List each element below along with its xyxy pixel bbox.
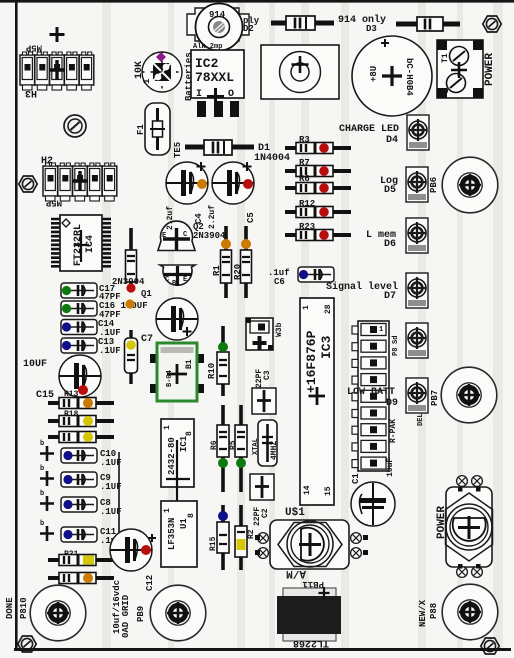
transistor Q1 bowl CBE (160, 265, 195, 288)
wire vertical right of caps (118, 452, 120, 532)
svg-text:PB7: PB7 (430, 390, 440, 406)
opamp U1 LF353N (161, 501, 197, 567)
capacitor C17 (61, 283, 97, 298)
battery B1 green module (150, 343, 204, 401)
cap square 1 (252, 388, 276, 414)
svg-text:+8U: +8U (369, 66, 379, 82)
IC3 16F876P (300, 298, 334, 505)
electrolytic C12 (110, 529, 152, 571)
IC4 FT232RL (51, 215, 111, 271)
yellow dot R18 (83, 416, 93, 426)
hex pad left (19, 176, 37, 192)
svg-text:D7: D7 (384, 291, 396, 302)
svg-text:E: E (162, 232, 166, 240)
svg-text:10UF: 10UF (23, 359, 47, 370)
svg-text:IC2: IC2 (195, 56, 219, 71)
purple dot of 10K pot (156, 52, 166, 62)
svg-text:R5: R5 (229, 440, 238, 450)
svg-text:B1: B1 (185, 359, 194, 369)
LED D7 (406, 273, 428, 308)
mounting hole screw top-left (64, 115, 86, 137)
svg-text:Alk.2mp: Alk.2mp (193, 43, 222, 51)
svg-text:1: 1 (163, 508, 172, 513)
svg-text:0AD GRID: 0AD GRID (121, 594, 131, 638)
board border: top line (0, 0, 514, 3)
svg-text:H2: H2 (41, 156, 53, 167)
resistor R10 vertical (217, 326, 229, 396)
capacitor C11 (61, 527, 97, 542)
IC TL2268 dark package (277, 587, 341, 641)
svg-text:14: 14 (303, 485, 312, 495)
IC2 78XXL regulator (191, 50, 244, 117)
svg-text:.1UF: .1UF (99, 346, 121, 356)
trimpot 10K (142, 52, 182, 92)
svg-text:2432-80: 2432-80 (167, 437, 177, 475)
capacitor C10 (61, 448, 97, 463)
rotary switch U$1 (270, 520, 349, 569)
orange dot R22 (83, 573, 93, 583)
svg-text:P88: P88 (429, 603, 439, 619)
svg-text:IC3: IC3 (319, 335, 334, 359)
orange dot R13 (83, 398, 93, 408)
svg-text:LF353N: LF353N (167, 518, 177, 550)
svg-text:10uF: 10uF (386, 458, 395, 477)
svg-text:XTAL: XTAL (252, 438, 260, 455)
resistor row3 (48, 432, 114, 443)
resistor R6b vertical (217, 405, 229, 492)
svg-text:4MHZ: 4MHZ (270, 441, 279, 460)
diode D2 (271, 16, 334, 30)
svg-text:NEW/X: NEW/X (418, 599, 428, 627)
svg-text:2.2uf: 2.2uf (166, 206, 175, 230)
svg-text:R-PAK: R-PAK (389, 419, 398, 443)
hex mount top-right (483, 16, 501, 32)
hex mount bottom-left (18, 636, 36, 652)
green dot C17 (62, 286, 71, 295)
yellow dot row3 (83, 432, 93, 442)
green dot C16 (62, 304, 71, 313)
svg-text:IC1: IC1 (179, 435, 189, 452)
svg-text:C3: C3 (263, 370, 272, 380)
svg-text:D5: D5 (384, 185, 396, 196)
svg-text:DONE: DONE (5, 597, 15, 619)
hex mount bottom-right (481, 638, 499, 654)
resistor R2 vertical (235, 505, 247, 570)
svg-text:O: O (228, 89, 234, 100)
resistor R13 row (48, 398, 114, 409)
big power capacitor (352, 36, 432, 116)
fiducial cross top-left (50, 27, 65, 42)
POWER pads bottom (457, 567, 468, 578)
svg-text:D6: D6 (384, 239, 396, 250)
resistor R20 vertical (241, 226, 252, 298)
svg-text:8: 8 (185, 431, 194, 436)
green dot R6b (218, 458, 228, 468)
crystal 4MHZ (258, 420, 277, 466)
svg-text:Sd: Sd (392, 336, 400, 344)
svg-text:Q1: Q1 (141, 289, 152, 299)
svg-text:914: 914 (209, 10, 226, 20)
svg-text:D9: D9 (386, 398, 398, 409)
svg-text:1: 1 (163, 425, 172, 430)
resistor R5 vertical (235, 405, 247, 492)
button P88 (442, 584, 498, 640)
orange dot R1 (221, 239, 231, 249)
buzzer box (261, 45, 339, 99)
svg-text:R6: R6 (210, 440, 219, 450)
svg-text:C4: C4 (194, 213, 204, 224)
plus C24 (183, 327, 192, 336)
svg-text:R10: R10 (207, 363, 217, 379)
red dot C12 (141, 545, 151, 555)
relay-like part mid (246, 318, 273, 350)
connector H2 (43, 163, 117, 201)
svg-text:A/M: A/M (286, 567, 306, 579)
electrolytic C15 (59, 355, 101, 397)
svg-text:8: 8 (187, 513, 196, 518)
board border: left line (15, 0, 18, 650)
svg-text:D2: D2 (243, 24, 254, 34)
connector H3 (20, 52, 94, 90)
svg-text:28: 28 (324, 304, 333, 314)
svg-text:M5P: M5P (25, 43, 42, 53)
svg-text:C15: C15 (36, 390, 54, 401)
resistor R9 vertical (126, 228, 137, 292)
diode D1 (185, 140, 254, 155)
capacitor C14 (61, 320, 97, 335)
svg-text:C5: C5 (246, 212, 256, 223)
svg-text:I: I (196, 89, 202, 100)
orange dot on label (125, 299, 134, 308)
svg-text:1: 1 (302, 305, 311, 310)
svg-text:C1: C1 (351, 473, 361, 484)
board border: bottom line (14, 648, 511, 651)
svg-text:Batteries: Batteries (184, 52, 194, 101)
svg-text:10K: 10K (134, 61, 145, 79)
svg-text:P8: P8 (392, 348, 400, 356)
green dot R5 (236, 458, 246, 468)
svg-text:R15: R15 (209, 536, 218, 551)
green dot R10 (218, 342, 228, 352)
svg-text:R2: R2 (247, 529, 256, 539)
power trimmer top right (437, 40, 483, 98)
fuse F1 (145, 103, 170, 155)
svg-text:C: C (165, 276, 169, 284)
electrolytic C5 (212, 162, 254, 204)
LED D5 (406, 167, 428, 202)
button PB9 (150, 585, 206, 641)
svg-text:PB9: PB9 (136, 606, 146, 622)
svg-text:78XXL: 78XXL (195, 70, 234, 85)
svg-text:B-04: B-04 (166, 370, 174, 387)
cap square 2 (250, 474, 274, 500)
capacitor C13 (61, 338, 97, 353)
plus C12 (148, 534, 156, 542)
blue dot C14 (62, 322, 71, 331)
svg-text:POWER: POWER (484, 53, 496, 86)
capacitor C9 (61, 472, 97, 487)
svg-text:bC-H0B4: bC-H0B4 (404, 58, 414, 96)
svg-text:U$1: U$1 (285, 507, 305, 519)
plus marker row4 (40, 526, 54, 541)
svg-text:C12: C12 (145, 575, 155, 591)
svg-text:W3b: W3b (275, 322, 284, 337)
electrolytic C24 mid (156, 298, 198, 340)
red dot Q1 (126, 283, 135, 292)
LED D6 (406, 218, 428, 253)
R-PAK socket strip (352, 321, 389, 471)
LED D8 (406, 323, 428, 358)
plus C5 (243, 162, 252, 171)
svg-text:C2: C2 (261, 508, 270, 518)
svg-text:U1: U1 (179, 518, 189, 529)
svg-text:C6: C6 (274, 277, 285, 287)
red dot C15 (78, 385, 88, 395)
resistor R21 row (48, 555, 114, 566)
svg-text:P810: P810 (19, 597, 29, 619)
svg-text:E: E (183, 276, 187, 284)
capacitor C16 (61, 301, 97, 316)
svg-text:+16F876P: +16F876P (304, 330, 319, 393)
svg-text:b: b (40, 490, 44, 498)
blue dot R15 (218, 511, 228, 521)
POWER pads top (457, 476, 468, 487)
orange dot R20 (241, 239, 251, 249)
transistor Q2 (158, 221, 195, 250)
resistor R15 vertical (217, 505, 229, 570)
svg-text:1: 1 (379, 326, 383, 334)
plus marker row1 (40, 446, 54, 461)
svg-text:D4: D4 (386, 135, 398, 146)
diode D3 (396, 17, 460, 31)
svg-text:M5P: M5P (45, 198, 62, 208)
blue dot C13 (62, 341, 71, 350)
plus marker row3 (40, 496, 54, 511)
blue dot C6 (299, 270, 308, 279)
svg-text:1N4004: 1N4004 (254, 153, 290, 164)
svg-text:15: 15 (324, 486, 333, 496)
svg-text:C: C (183, 231, 187, 239)
LED D4 (407, 115, 429, 150)
svg-text:DEL: DEL (417, 413, 425, 426)
rotary switch POWER (446, 487, 493, 567)
svg-text:b: b (40, 440, 44, 448)
svg-text:R20: R20 (233, 264, 243, 280)
electrolytic C1 (351, 482, 395, 526)
plus marker row2 (40, 471, 54, 486)
svg-text:2.2uf: 2.2uf (208, 205, 217, 229)
resistor R22 row (48, 573, 114, 584)
LED D9 (406, 378, 428, 413)
red dot C5 (243, 179, 253, 189)
capacitor C7 vertical (125, 330, 138, 384)
plus C4 (197, 162, 206, 171)
svg-text:FT232RL: FT232RL (73, 224, 84, 266)
svg-text:2: 2 (442, 88, 451, 93)
svg-text:2N3904: 2N3904 (193, 231, 226, 241)
yellow dot R2 (237, 539, 246, 550)
button PB6 (442, 157, 498, 213)
resistor R18 row (48, 416, 114, 427)
button PB10 (30, 585, 86, 641)
svg-text:POWER: POWER (436, 506, 448, 539)
electrolytic C4 (166, 162, 208, 204)
svg-text:TL2268: TL2268 (293, 637, 329, 648)
svg-text:C7: C7 (141, 334, 153, 345)
IC1 24C32 (161, 419, 194, 537)
svg-text:TE5: TE5 (173, 142, 183, 158)
svg-text:H3: H3 (25, 87, 37, 98)
svg-text:914 only: 914 only (338, 14, 386, 26)
svg-text:b: b (40, 520, 44, 528)
svg-text:T1: T1 (441, 53, 450, 63)
yellow dot C7 (126, 340, 136, 350)
power jack 914 supply (187, 4, 249, 51)
capacitor C6 (298, 267, 334, 282)
svg-text:PB6: PB6 (429, 177, 439, 193)
svg-text:F1: F1 (136, 124, 146, 135)
capacitor C8 (61, 497, 97, 512)
orange dot C4 (197, 179, 207, 189)
svg-text:LOW BATT: LOW BATT (347, 387, 395, 398)
yellow dot R21 (83, 556, 94, 565)
resistor R1 vertical (221, 226, 232, 298)
button PB7 (441, 367, 497, 423)
svg-text:R1: R1 (212, 265, 222, 276)
U$1 pads (258, 533, 269, 544)
svg-text:D3: D3 (366, 24, 377, 34)
svg-text:CHARGE LED: CHARGE LED (339, 124, 399, 135)
svg-text:IC4: IC4 (85, 235, 96, 253)
svg-text:b: b (40, 465, 44, 473)
